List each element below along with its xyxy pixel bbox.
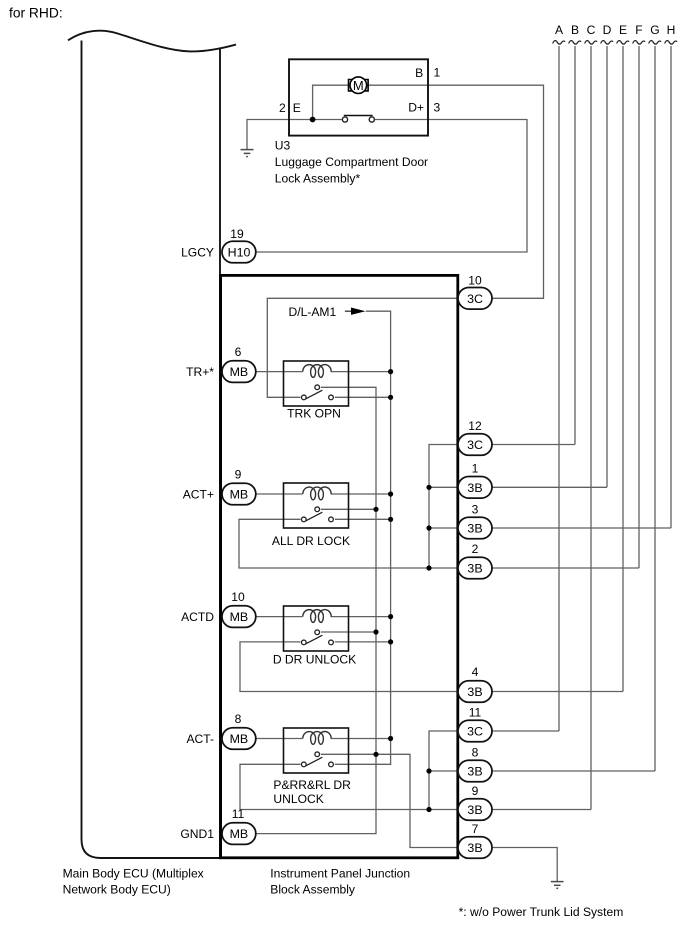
svg-text:C: C bbox=[587, 23, 596, 37]
svg-text:TRK OPN: TRK OPN bbox=[287, 406, 341, 420]
svg-text:3B: 3B bbox=[467, 522, 482, 536]
svg-text:ALL DR LOCK: ALL DR LOCK bbox=[272, 534, 350, 548]
svg-text:19: 19 bbox=[230, 227, 244, 241]
svg-text:D/L-AM1: D/L-AM1 bbox=[289, 305, 337, 319]
svg-text:UNLOCK: UNLOCK bbox=[273, 792, 323, 806]
svg-text:GND1: GND1 bbox=[180, 827, 214, 841]
svg-text:9: 9 bbox=[472, 784, 479, 798]
svg-text:11: 11 bbox=[232, 807, 245, 821]
svg-text:Lock Assembly*: Lock Assembly* bbox=[275, 172, 361, 186]
svg-text:3: 3 bbox=[434, 100, 441, 114]
svg-text:7: 7 bbox=[472, 822, 479, 836]
svg-text:3B: 3B bbox=[467, 685, 482, 699]
svg-text:*: w/o Power Trunk Lid System: *: w/o Power Trunk Lid System bbox=[459, 905, 624, 919]
svg-text:MB: MB bbox=[230, 732, 249, 746]
svg-text:D DR UNLOCK: D DR UNLOCK bbox=[273, 652, 356, 666]
svg-text:Main Body ECU (Multiplex: Main Body ECU (Multiplex bbox=[63, 867, 204, 881]
svg-text:3B: 3B bbox=[467, 803, 482, 817]
svg-text:B: B bbox=[571, 23, 579, 37]
svg-text:MB: MB bbox=[230, 365, 249, 379]
svg-text:11: 11 bbox=[469, 706, 482, 720]
svg-text:12: 12 bbox=[468, 419, 482, 433]
svg-text:Network Body ECU): Network Body ECU) bbox=[63, 883, 171, 897]
svg-text:for RHD:: for RHD: bbox=[9, 5, 63, 20]
svg-text:ACT-: ACT- bbox=[186, 732, 214, 746]
svg-text:P&RR&RL DR: P&RR&RL DR bbox=[273, 778, 351, 792]
svg-text:ACT+: ACT+ bbox=[183, 488, 214, 502]
svg-text:MB: MB bbox=[230, 488, 249, 502]
svg-text:H10: H10 bbox=[228, 246, 251, 260]
svg-text:LGCY: LGCY bbox=[181, 246, 214, 260]
svg-text:B: B bbox=[415, 66, 423, 80]
svg-text:D: D bbox=[603, 23, 612, 37]
svg-text:E: E bbox=[293, 101, 301, 115]
svg-text:1: 1 bbox=[472, 462, 479, 476]
svg-text:3B: 3B bbox=[467, 562, 482, 576]
svg-text:2: 2 bbox=[279, 101, 286, 115]
svg-text:6: 6 bbox=[235, 345, 242, 359]
svg-text:ACTD: ACTD bbox=[181, 610, 214, 624]
svg-text:Luggage Compartment Door: Luggage Compartment Door bbox=[275, 155, 428, 169]
svg-text:8: 8 bbox=[235, 712, 242, 726]
svg-text:D+: D+ bbox=[408, 101, 424, 115]
svg-text:10: 10 bbox=[231, 590, 245, 604]
svg-text:U3: U3 bbox=[275, 139, 291, 153]
svg-text:MB: MB bbox=[230, 610, 249, 624]
svg-text:TR+*: TR+* bbox=[186, 365, 214, 379]
svg-text:E: E bbox=[619, 23, 627, 37]
svg-text:9: 9 bbox=[235, 467, 242, 481]
svg-text:10: 10 bbox=[468, 274, 482, 288]
svg-text:MB: MB bbox=[230, 827, 249, 841]
svg-text:F: F bbox=[635, 23, 642, 37]
svg-text:2: 2 bbox=[472, 542, 479, 556]
svg-text:M: M bbox=[353, 78, 364, 93]
svg-text:3B: 3B bbox=[467, 841, 482, 855]
svg-text:4: 4 bbox=[472, 665, 479, 679]
svg-text:A: A bbox=[555, 23, 564, 37]
svg-text:G: G bbox=[650, 23, 659, 37]
svg-text:3B: 3B bbox=[467, 481, 482, 495]
svg-text:3C: 3C bbox=[467, 438, 483, 452]
svg-text:Block Assembly: Block Assembly bbox=[270, 883, 356, 897]
svg-text:Instrument Panel Junction: Instrument Panel Junction bbox=[270, 867, 410, 881]
svg-text:3: 3 bbox=[472, 503, 479, 517]
svg-text:H: H bbox=[667, 23, 676, 37]
svg-text:3B: 3B bbox=[467, 765, 482, 779]
svg-text:3C: 3C bbox=[467, 725, 483, 739]
svg-text:1: 1 bbox=[434, 66, 441, 80]
svg-text:8: 8 bbox=[472, 746, 479, 760]
svg-text:3C: 3C bbox=[467, 292, 483, 306]
